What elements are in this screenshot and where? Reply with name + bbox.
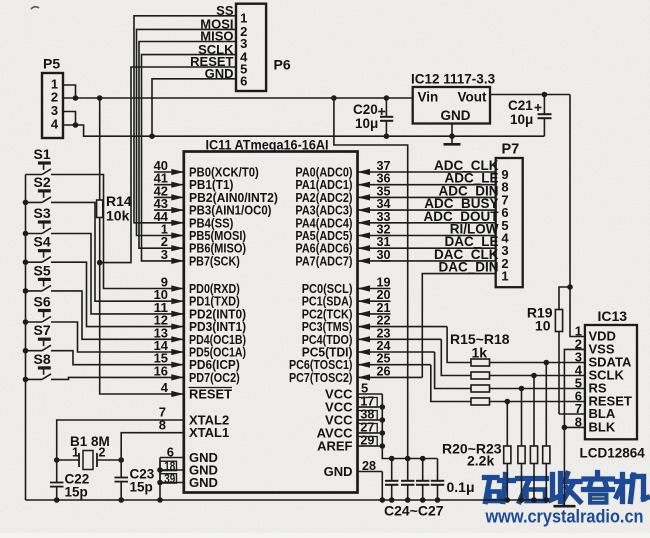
svg-text:DAC_DIN: DAC_DIN [438,260,498,275]
pin 15 PD6(ICP) [154,351,240,373]
junction R14 bottom / RESET net [97,260,103,266]
junction P5 pin3-4 [73,122,79,128]
wire VCC pins vertical [382,394,437,459]
switch S2 [26,174,155,301]
svg-text:28: 28 [362,458,376,473]
connector P7 [496,142,523,288]
wire DAC_LE net [381,247,496,249]
junction C20 top / VCC rail [384,95,390,101]
node RESET label [190,54,233,69]
svg-text:C24~C27: C24~C27 [384,503,444,519]
pin 2 PB6(MISO) [154,234,246,256]
svg-text:P5: P5 [43,56,60,72]
wire IC12 Vout [490,94,570,96]
capacitor C22 15p [50,460,89,500]
connector P6 [236,4,291,91]
pin 18 GND [160,460,218,478]
wire ADC_CLK net [381,171,496,173]
switch S3 [26,205,155,314]
node GND label [205,66,234,81]
svg-text:8: 8 [575,414,582,429]
svg-text:8: 8 [159,417,166,432]
wire ADC_DIN net [381,196,496,198]
pin 28 GND [324,458,383,500]
svg-text:C20: C20 [353,102,378,117]
pin 17 VCC [325,394,385,415]
junction C24 bottom [389,497,395,503]
svg-text:P6: P6 [274,57,291,73]
svg-text:S1: S1 [34,146,51,162]
wire XTAL2 to crystal [57,420,154,460]
wire left rail (switch common) [25,175,27,501]
crystal B1 8MHz [57,434,122,470]
svg-text:LCD12864: LCD12864 [580,446,646,461]
pin 9 PD0(RXD) [154,275,240,297]
svg-text:10: 10 [535,318,551,334]
pin 12 PD3(INT1) [154,313,247,335]
svg-text:1: 1 [72,446,79,460]
label R15~R18 [450,331,510,347]
pin 20 PC1(SDA) [302,287,391,309]
pin 44 PB4(SS) [154,209,234,231]
junction C21 top / Vout [542,92,548,98]
resistor R14 [97,98,132,263]
label 1k [472,345,488,361]
node SCLK label [198,42,234,57]
capacitor C24 0.1u [385,459,398,501]
junction IC12 GND / rail [449,133,455,139]
svg-text:16: 16 [154,363,168,378]
capacitor C27 0.1u [431,459,444,501]
svg-text:PB7(SCK): PB7(SCK) [189,253,240,268]
node RI/LOW label [450,222,499,237]
regulator IC12 1117-3.3 [411,72,496,124]
junction BLK [562,425,568,431]
svg-text:6: 6 [240,74,247,89]
scan artifact [31,7,39,9]
wire bottom GND rail [26,499,547,501]
pin 3 PB7(SCK) [154,247,240,269]
pin 30 PA7(ADC7) [295,247,390,269]
resistor R21 2.2k [518,389,525,501]
svg-text:IC12 1117-3.3: IC12 1117-3.3 [411,72,496,87]
wire GND rail (P5 pin4 to C21) [63,125,544,136]
svg-text:Vin: Vin [418,90,439,105]
switch S4 [26,234,155,327]
wire DAC_DIN net (P7 pin1 to PC7) [422,274,495,378]
pin 33 PA4(ADC4) [295,209,390,231]
pin 31 PA6(ADC6) [295,234,390,256]
wire RI/LOW net [381,235,496,237]
switch S5 [26,262,155,339]
pin 13 PD4(OC1B) [154,325,247,347]
watermark logo text [485,473,648,503]
resistor R23 2.2k [543,363,550,501]
junction S5 on left rail [23,288,29,294]
pin 10 PD1(TXD) [154,287,240,309]
junction crystal right [118,457,124,463]
junction S6 on left rail [23,319,29,325]
wire XTAL1 to crystal [121,433,154,460]
pin 37 PA0(ADC0) [295,158,390,180]
svg-text:S5: S5 [34,262,51,278]
svg-text:6: 6 [167,444,174,459]
svg-text:1k: 1k [472,345,488,361]
pin 43 PB3(AIN1/OC0) [154,196,272,218]
junction GND18 [157,467,163,473]
node DAC_DIN label [438,260,498,275]
wire MOSI net [137,29,237,235]
pin 32 PA5(ADC5) [295,222,390,244]
LCD module IC13 [575,308,646,461]
junction R21 / rail [519,497,525,503]
svg-text:IC13: IC13 [598,308,628,324]
resistor R17 1k [435,352,585,392]
junction C23 / rail [118,497,124,503]
pin 16 PD7(OC2) [154,363,240,385]
wire DAC_CLK net [381,260,496,262]
wire SS net [134,16,236,223]
svg-text:GND: GND [324,464,353,479]
pin 7 XTAL2 [154,405,229,428]
svg-text:15p: 15p [65,485,88,500]
junction C27 bottom [435,497,441,503]
resistor R22 2.2k [530,376,537,501]
node ADC_BUSY label [424,196,498,211]
svg-text:GND: GND [441,108,471,123]
junction VCC drop / node line [405,456,411,462]
svg-text:S6: S6 [34,294,51,310]
connector P5 [42,56,63,139]
pin 39 GND [160,472,218,490]
svg-text:26: 26 [377,363,391,378]
junction S4 on left rail [23,259,29,265]
node MOSI label [200,17,233,32]
svg-text:XTAL1: XTAL1 [189,425,229,440]
svg-text:S8: S8 [34,351,51,367]
wire VCC rail (P5 pin2 to IC12 Vin) [63,97,413,99]
pin 8 XTAL1 [154,417,229,440]
pin 22 PC3(TMS) [302,313,447,335]
resistor R15 1k [447,327,585,366]
svg-text:1: 1 [501,269,508,284]
svg-text:30: 30 [377,247,391,262]
junction C22 / rail [54,497,60,503]
junction S7 on left rail [23,348,29,354]
pin 11 PD2(INT0) [154,300,247,322]
label R20~R23 [442,441,502,457]
ground symbol LCD [554,505,576,508]
svg-text:BLK: BLK [589,420,616,435]
svg-text:0.1μ: 0.1μ [447,479,475,495]
svg-text:S7: S7 [34,322,51,338]
wire RESET net from P6 [100,67,236,263]
node ADC_DOUT label [423,209,499,224]
wire GND from P6 pin6 [152,79,236,136]
junction C20 bottom / GND rail [384,133,390,139]
pin 5 VCC [325,381,382,402]
wire ADC_LE net [381,184,496,186]
pin 29 AREF [317,433,385,454]
junction S3 on left rail [23,231,29,237]
label 0.1u [447,479,475,495]
svg-text:10k: 10k [106,208,130,224]
op-amp U-IC11 box (ATmega16-16AI) [184,138,358,493]
svg-text:S3: S3 [34,205,51,221]
switch S6 [26,294,155,353]
node ADC_DIN label [438,183,498,198]
watermark url text [485,507,644,527]
junction GND vertical / bottom rail [157,497,163,503]
junction R14 top / VCC rail [97,95,103,101]
svg-text:P7: P7 [502,142,520,158]
svg-text:3: 3 [161,247,168,262]
junction GND39 [157,480,163,486]
pin 14 PD5(OC1A) [154,338,247,360]
switch S8 [26,351,155,380]
capacitor C25 0.1u [401,459,414,501]
wire ADC_BUSY net [381,209,496,211]
node DAC_CLK label [434,247,499,262]
junction R19 tap [567,284,573,290]
svg-text:GND: GND [189,475,218,490]
junction R23 / rail [544,497,550,503]
node ADC_LE label [444,171,498,186]
pin 38 VCC [325,407,385,428]
svg-text:Vout: Vout [458,90,487,105]
pin 35 PA2(ADC2) [295,183,390,205]
wire P5 pin3 to pin4 [63,112,76,126]
pin 21 PC2(TCK) [302,300,391,322]
resistor R18 1k [431,365,585,405]
svg-text:2: 2 [99,446,106,460]
capacitor C21 10u [508,95,552,137]
wire Vout down to IC13 VDD [570,95,585,337]
svg-text:10μ: 10μ [510,112,533,127]
pin 23 PC4(TDO) [302,325,442,347]
label C24~C27 [384,503,444,519]
svg-text:2.2k: 2.2k [467,453,494,469]
junction R22 / rail [531,497,537,503]
pin 4 RESET (with overbar) [154,380,232,402]
pin 8 BLK stub [564,426,585,428]
pin 26 PC7(TOSC2) [289,363,422,385]
svg-text:10μ: 10μ [355,116,378,131]
node SS label [216,3,234,18]
svg-text:IC11 ATmega16-16AI: IC11 ATmega16-16AI [206,138,329,153]
capacitor C20 10u [353,98,393,136]
label 2.2k [467,453,494,469]
switch S7 [26,322,155,365]
wire GND pins to bottom rail [159,458,161,501]
junction VCC drop / rail [331,95,337,101]
wire SCLK net [142,55,237,261]
junction S8 on left rail [23,377,29,383]
node ADC_CLK label [434,158,499,173]
svg-text:AREF: AREF [317,439,352,454]
junction S2 on left rail [23,200,29,206]
junction P5 pin1-2 [73,95,79,101]
svg-text:PA7(ADC7): PA7(ADC7) [295,253,352,268]
capacitor C23 15p [115,460,155,500]
wire ADC_DOUT net [381,222,496,224]
junction crystal left [54,457,60,463]
svg-text:PD7(OC2): PD7(OC2) [189,370,240,385]
wire VCC drop to decoupling node [334,98,408,459]
pin 19 PC0(SCL) [302,275,391,297]
svg-text:S2: S2 [34,174,51,190]
junction C26 top [420,456,426,462]
pin 24 PC5(TDI) [302,338,435,360]
svg-text:29: 29 [360,433,374,448]
junction R20 / rail [505,497,511,503]
wire RESET to IC11 pin4 [100,263,154,394]
wire VSS-BLK ground [564,349,585,505]
resistor R19 10 [527,287,585,414]
pin 6 GND [160,444,218,465]
switch S1 [26,146,155,289]
junction C24 top [389,456,395,462]
resistor R16 1k [441,339,585,379]
wire MISO net [139,42,236,249]
svg-text:PC7(TOSC2): PC7(TOSC2) [289,370,353,385]
node MISO label [200,29,233,44]
svg-text:RESET: RESET [189,387,232,402]
ground symbol under IC12 [444,136,461,144]
pin 25 PC6(TOSC1) [289,351,431,373]
pin 36 PA1(ADC1) [295,171,390,193]
pin 41 PB1(T1) [154,171,234,193]
svg-text:C21: C21 [508,98,533,113]
junction C26 bottom [420,497,426,503]
wire P5 pin1 to pin2 [63,85,76,98]
svg-text:www.crystalradio.cn: www.crystalradio.cn [485,507,644,527]
resistor R20 2.2k [504,402,511,501]
svg-text:4: 4 [51,117,59,132]
svg-text:4: 4 [161,380,169,395]
pin 1 PB5(MOSI) [154,222,246,244]
capacitor C26 0.1u [416,459,429,501]
svg-text:15p: 15p [130,480,153,495]
pin 34 PA3(ADC3) [295,196,391,218]
wire IC12 GND lead [451,124,453,137]
pin 27 AVCC [317,420,385,441]
pin 40 PB0(XCK/T0) [154,158,259,180]
node DAC_LE label [444,234,498,249]
junction pin28 / bottom rail [380,497,386,503]
pin 42 PB2(AIN0/INT2) [154,183,278,205]
svg-text:S4: S4 [34,234,51,250]
junction P6 GND / GND rail [149,133,155,139]
junction C25 bottom [405,497,411,503]
